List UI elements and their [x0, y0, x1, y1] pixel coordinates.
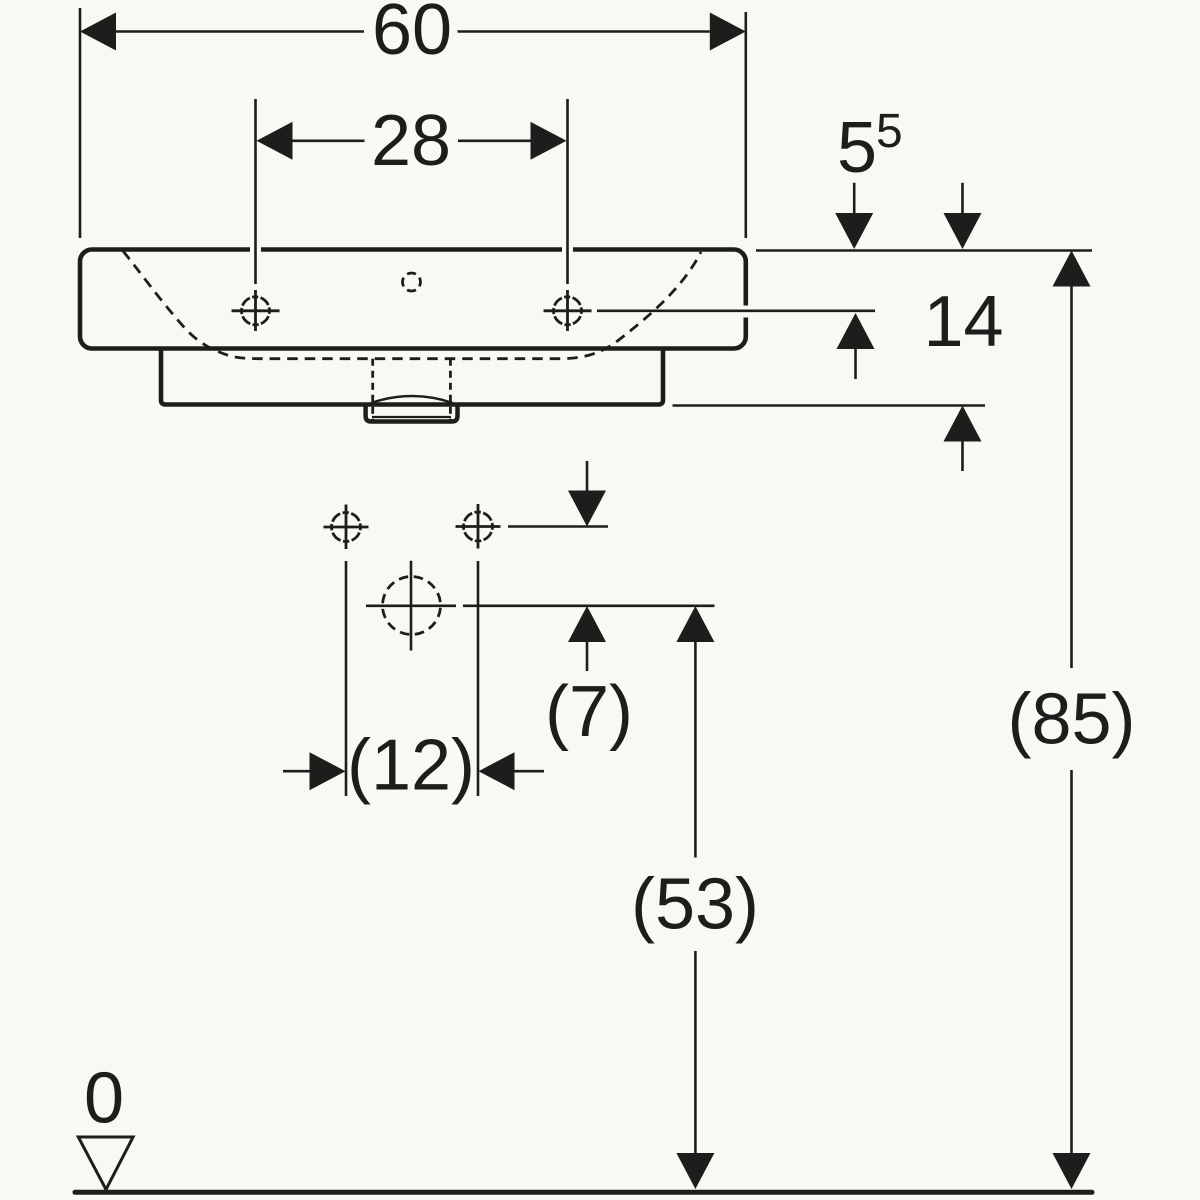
svg-text:(12): (12)	[347, 726, 475, 806]
svg-text:(85): (85)	[1007, 680, 1135, 760]
svg-text:14: 14	[923, 282, 1003, 362]
svg-text:(53): (53)	[631, 865, 759, 945]
svg-text:(7): (7)	[545, 672, 633, 752]
svg-text:0: 0	[84, 1058, 124, 1138]
svg-text:60: 60	[372, 0, 452, 70]
svg-text:5: 5	[837, 108, 877, 188]
svg-text:5: 5	[876, 105, 903, 158]
svg-text:28: 28	[371, 101, 451, 181]
